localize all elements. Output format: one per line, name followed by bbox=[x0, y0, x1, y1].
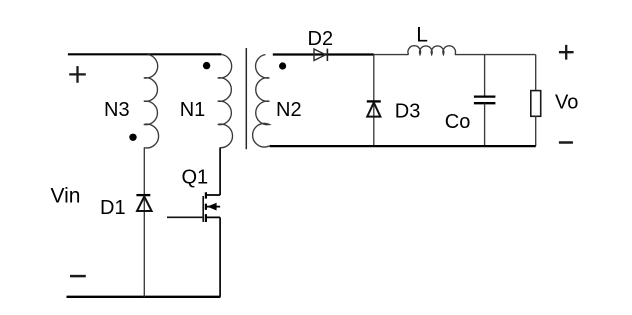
wire: N2 top through D2 to D3 junction bbox=[273, 53, 374, 55]
wire: D3 branch junction to bottom rail bbox=[373, 55, 375, 147]
svg-text:D3: D3 bbox=[395, 100, 421, 122]
diode D2 bbox=[314, 49, 327, 61]
svg-text:D2: D2 bbox=[308, 28, 334, 50]
wire: output right riser top bbox=[535, 55, 537, 91]
svg-text:Vo: Vo bbox=[555, 92, 578, 114]
resistor load Vo bbox=[531, 91, 541, 117]
svg-text:Co: Co bbox=[445, 111, 471, 133]
wire: L to output top corner bbox=[455, 54, 536, 56]
svg-text:L: L bbox=[416, 24, 428, 47]
wire: N3 through D1 to bottom rail bbox=[143, 148, 145, 297]
label + (Vo positive terminal) bbox=[559, 45, 574, 60]
label - (Vin negative terminal) bbox=[70, 275, 86, 278]
wire: N1 bottom to Q1 drain bbox=[219, 148, 221, 196]
svg-text:D1: D1 bbox=[100, 197, 126, 219]
wire: junction to L bbox=[374, 54, 409, 56]
svg-text:Vin: Vin bbox=[51, 185, 81, 208]
transformer core bbox=[245, 48, 247, 149]
transformer winding N1 bbox=[218, 55, 233, 148]
diode D3 bbox=[367, 101, 381, 116]
wire: Co to bottom rail bbox=[484, 103, 486, 146]
diode D1 bbox=[136, 195, 151, 211]
svg-text:N1: N1 bbox=[180, 99, 206, 121]
label + (Vin positive terminal) bbox=[69, 66, 86, 83]
transistor Q1 (N-MOSFET) bbox=[167, 192, 220, 222]
polarity dot N2 bbox=[279, 62, 286, 69]
capacitor Co bbox=[474, 97, 496, 104]
transformer winding N2 bbox=[253, 55, 270, 148]
svg-text:N3: N3 bbox=[104, 99, 130, 121]
wire: output right riser bottom bbox=[535, 116, 537, 146]
wire: primary bottom rail bbox=[67, 296, 221, 298]
inductor L bbox=[408, 46, 456, 55]
wire: Co branch top bbox=[484, 55, 486, 97]
wire: secondary bottom rail bbox=[270, 145, 536, 147]
wire: primary top rail bbox=[68, 53, 222, 55]
transformer winding N3 bbox=[144, 55, 159, 148]
wire: Q1 source to bottom rail bbox=[219, 217, 221, 296]
polarity dot N3 bbox=[129, 134, 136, 141]
svg-text:Q1: Q1 bbox=[182, 166, 209, 188]
polarity dot N1 bbox=[203, 62, 210, 69]
svg-text:N2: N2 bbox=[276, 99, 302, 121]
label - (Vo negative terminal) bbox=[559, 141, 573, 144]
